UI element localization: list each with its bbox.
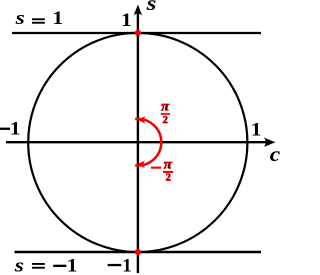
svg-text:1: 1 [52, 8, 63, 29]
svg-text:1: 1 [121, 10, 132, 31]
c-axis (horizontal) [6, 141, 266, 143]
svg-text:s: s [14, 256, 24, 275]
red label -pi/2: fraction bar [163, 171, 173, 173]
label -1 below c-axis (bottom): minus [108, 264, 122, 266]
label s = -1: equals sign [32, 263, 45, 265]
arc arrowhead at pi/2 (points left) [138, 116, 146, 124]
red point (0,1) [135, 30, 141, 36]
svg-text:1: 1 [251, 120, 262, 141]
tangent line s = 1 (top) [12, 32, 261, 34]
svg-text:1: 1 [67, 256, 78, 275]
red label pi/2: fraction bar [161, 113, 170, 115]
label s = 1: equals sign [32, 18, 45, 20]
red angle arc from pi/2 to -pi/2 [135, 119, 161, 166]
svg-text:π: π [161, 100, 169, 115]
svg-text:s: s [14, 8, 24, 29]
c-axis arrowhead [264, 137, 276, 147]
svg-text:π: π [164, 158, 173, 173]
label s = -1: minus [53, 265, 66, 267]
svg-text:2: 2 [166, 173, 171, 184]
s-axis arrowhead [134, 5, 143, 16]
unit circle [28, 33, 247, 252]
svg-text:c: c [270, 142, 280, 166]
svg-text:s: s [145, 0, 156, 15]
arc arrowhead at -pi/2 (points left) [137, 161, 145, 169]
s-axis (vertical) [137, 13, 139, 273]
svg-text:1: 1 [122, 256, 132, 275]
svg-text:2: 2 [163, 115, 168, 126]
svg-text:1: 1 [10, 119, 21, 140]
red label -pi/2: minus [151, 167, 161, 169]
red point (0,-1) [135, 249, 141, 255]
label -1 left of c-axis: minus [0, 128, 10, 130]
tangent line s = -1 (bottom) [15, 251, 262, 253]
